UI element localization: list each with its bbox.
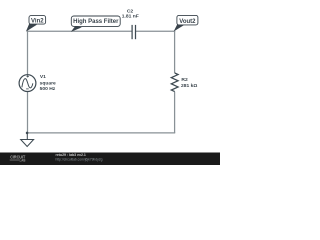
wire right lower (R2 bottom to bottom rail) (174, 92, 176, 133)
svg-text:R2: R2 (181, 77, 188, 83)
junction dot ground node (26, 132, 29, 135)
capacitor C2 (132, 25, 135, 39)
svg-text:square: square (40, 80, 56, 86)
wire right upper (Vout2 corner to R2 top) (174, 31, 176, 73)
svg-text:281 kΩ: 281 kΩ (181, 83, 197, 89)
svg-text:500 Hz: 500 Hz (40, 86, 56, 92)
ground (21, 133, 34, 147)
svg-text:V1: V1 (40, 74, 46, 80)
svg-text:Vin2: Vin2 (31, 19, 44, 25)
wire left lower (V1 bottom to ground node) (27, 91, 29, 133)
wire top left segment (node Vin2 to C2 left plate) (27, 30, 132, 32)
svg-text:1.81 nF: 1.81 nF (122, 14, 139, 20)
svg-text:High Pass Filter: High Pass Filter (73, 19, 119, 25)
svg-text:C2: C2 (127, 8, 134, 14)
svg-text:LAB: LAB (20, 159, 26, 163)
wire left upper (Vin2 corner to V1 top) (27, 31, 29, 75)
svg-text:Vout2: Vout2 (179, 19, 196, 25)
watermark logo lines (10, 160, 19, 161)
wire bottom rail (27, 132, 175, 134)
svg-text:http://circuitlab.com/j6jk79hd: http://circuitlab.com/j6jk79hdy2g (56, 158, 103, 162)
resistor R2 (171, 73, 178, 92)
wire top right segment (C2 right plate to node Vout2) (136, 30, 175, 32)
svg-text:retu29 : lab3 ex2.1: retu29 : lab3 ex2.1 (56, 153, 86, 157)
voltage source V1 (19, 75, 36, 92)
node flag Vout2 (174, 15, 198, 31)
watermark bar (0, 153, 220, 166)
node flag Vin2 (26, 16, 46, 32)
annotation flag High Pass Filter (71, 16, 120, 32)
